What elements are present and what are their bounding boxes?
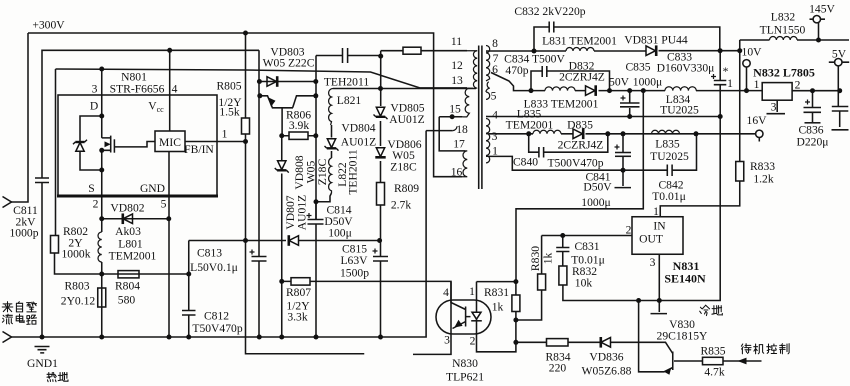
svg-text:1500p: 1500p — [340, 267, 369, 280]
svg-text:1000μ: 1000μ — [633, 76, 662, 89]
svg-text:FB/IN: FB/IN — [184, 143, 214, 156]
svg-text:1: 1 — [492, 145, 498, 158]
svg-text:L63V: L63V — [340, 254, 368, 267]
svg-text:R809: R809 — [394, 182, 419, 195]
svg-text:3: 3 — [771, 101, 777, 114]
svg-text:D220μ: D220μ — [797, 136, 829, 149]
svg-text:C831: C831 — [574, 240, 599, 253]
svg-text:1: 1 — [653, 205, 659, 218]
svg-text:L832: L832 — [771, 11, 796, 24]
svg-text:R807: R807 — [286, 286, 311, 299]
svg-text:VD804: VD804 — [341, 122, 375, 135]
svg-text:2: 2 — [795, 79, 801, 92]
svg-text:1.2k: 1.2k — [753, 173, 773, 186]
svg-text:TEM2001: TEM2001 — [109, 250, 157, 263]
svg-text:100μ: 100μ — [328, 227, 352, 240]
svg-text:T50V470p: T50V470p — [192, 322, 242, 335]
svg-text:N832 L7805: N832 L7805 — [753, 66, 815, 80]
svg-text:R804: R804 — [115, 280, 140, 293]
svg-text:R805: R805 — [216, 80, 241, 93]
svg-text:13: 13 — [451, 74, 463, 87]
svg-text:TU2025: TU2025 — [650, 150, 689, 163]
svg-text:L831 TEM2001: L831 TEM2001 — [542, 35, 617, 48]
svg-text:3.3k: 3.3k — [287, 311, 307, 324]
svg-text:IN: IN — [653, 220, 666, 233]
svg-text:12: 12 — [451, 59, 463, 72]
svg-text:TEH2011: TEH2011 — [347, 149, 360, 194]
svg-text:N830: N830 — [452, 357, 478, 370]
svg-text:T500V470p: T500V470p — [547, 157, 603, 170]
svg-text:17: 17 — [453, 138, 465, 151]
svg-text:5: 5 — [491, 90, 497, 103]
svg-text:4.7k: 4.7k — [704, 366, 724, 379]
svg-text:SE140N: SE140N — [664, 272, 706, 286]
svg-text:L50V0.1μ: L50V0.1μ — [190, 261, 238, 274]
svg-text:1000k: 1000k — [62, 248, 91, 261]
svg-text:L835: L835 — [655, 138, 680, 151]
svg-text:5: 5 — [161, 198, 167, 211]
svg-text:1: 1 — [754, 78, 760, 91]
svg-text:+300V: +300V — [32, 19, 65, 32]
svg-text:TLP621: TLP621 — [446, 371, 484, 384]
svg-text:TU2025: TU2025 — [660, 104, 699, 117]
svg-text:1.5k: 1.5k — [219, 106, 239, 119]
svg-text:C840: C840 — [513, 156, 538, 169]
svg-text:STR-F6656: STR-F6656 — [110, 83, 165, 96]
svg-text:3: 3 — [492, 130, 498, 143]
svg-text:VD831 PU44: VD831 PU44 — [624, 34, 688, 47]
svg-text:220: 220 — [549, 362, 567, 375]
svg-text:TEM2001: TEM2001 — [506, 119, 554, 132]
svg-text:18: 18 — [456, 123, 468, 136]
svg-text:2.7k: 2.7k — [391, 199, 411, 212]
svg-text:5V: 5V — [832, 48, 847, 61]
svg-text:T0.01μ: T0.01μ — [652, 190, 686, 203]
svg-text:16V: 16V — [747, 114, 768, 127]
svg-text:Z18C: Z18C — [390, 161, 417, 174]
svg-text:C813: C813 — [197, 247, 222, 260]
svg-text:11: 11 — [451, 35, 462, 48]
svg-text:1k: 1k — [492, 301, 504, 314]
svg-text:2CZRJ4Z: 2CZRJ4Z — [559, 71, 605, 84]
svg-text:1k: 1k — [542, 253, 555, 265]
svg-text:1: 1 — [727, 77, 733, 90]
svg-text:L821: L821 — [337, 94, 362, 107]
svg-text:3.9k: 3.9k — [289, 119, 309, 132]
svg-text:R830: R830 — [529, 246, 542, 271]
svg-text:GND: GND — [140, 182, 165, 195]
svg-text:AU01Z: AU01Z — [341, 136, 376, 149]
svg-text:4: 4 — [492, 109, 498, 122]
svg-text:2Y0.12: 2Y0.12 — [61, 295, 96, 308]
svg-text:D: D — [90, 100, 98, 113]
svg-text:C812: C812 — [204, 310, 229, 323]
svg-text:1: 1 — [469, 285, 475, 298]
svg-text:AU01Z: AU01Z — [389, 113, 424, 126]
svg-text:R803: R803 — [64, 280, 89, 293]
svg-text:2: 2 — [93, 198, 99, 211]
svg-text:VD836: VD836 — [589, 351, 623, 364]
svg-text:4: 4 — [172, 83, 178, 96]
svg-text:16: 16 — [451, 166, 463, 179]
svg-text:145V: 145V — [809, 3, 835, 16]
svg-text:580: 580 — [118, 294, 136, 307]
svg-text:W05Z6.88: W05Z6.88 — [582, 365, 632, 378]
svg-text:S: S — [88, 182, 94, 195]
svg-text:D50V: D50V — [583, 181, 612, 194]
svg-text:C835: C835 — [625, 61, 650, 74]
svg-text:GND1: GND1 — [27, 357, 58, 370]
svg-text:10V: 10V — [742, 46, 763, 59]
svg-text:1: 1 — [222, 128, 228, 141]
svg-text:TLN1550: TLN1550 — [760, 24, 806, 37]
svg-text:D160V330μ: D160V330μ — [657, 62, 715, 75]
svg-text:OUT: OUT — [639, 233, 663, 246]
svg-text:2CZRJ4Z: 2CZRJ4Z — [558, 139, 604, 152]
svg-text:TEH2011: TEH2011 — [324, 76, 369, 89]
svg-text:Ak03: Ak03 — [115, 225, 141, 238]
svg-text:MIC: MIC — [159, 136, 181, 149]
svg-text:D835: D835 — [567, 119, 593, 132]
svg-text:4: 4 — [443, 286, 449, 299]
svg-text:W05 Z22C: W05 Z22C — [263, 57, 315, 70]
svg-text:VD802: VD802 — [110, 202, 144, 215]
svg-text:Vcc: Vcc — [148, 100, 164, 115]
svg-text:15: 15 — [449, 103, 461, 116]
svg-text:3: 3 — [92, 83, 98, 96]
svg-text:1000p: 1000p — [10, 227, 39, 240]
svg-text:3: 3 — [444, 334, 450, 347]
svg-text:AU01Z: AU01Z — [296, 195, 309, 230]
svg-text:470p: 470p — [505, 64, 528, 77]
svg-text:R831: R831 — [484, 286, 509, 299]
svg-text:R835: R835 — [700, 345, 725, 358]
svg-text:8: 8 — [492, 37, 498, 50]
svg-text:50V: 50V — [609, 76, 630, 89]
svg-text:6: 6 — [492, 63, 498, 76]
svg-text:R833: R833 — [750, 160, 775, 173]
svg-text:3: 3 — [650, 256, 656, 269]
svg-text:10k: 10k — [575, 277, 593, 290]
svg-text:Z18C: Z18C — [316, 159, 329, 186]
svg-text:2: 2 — [470, 335, 476, 348]
svg-text:1000μ: 1000μ — [581, 196, 610, 209]
svg-text:29C1815Y: 29C1815Y — [657, 330, 709, 343]
svg-text:2: 2 — [626, 224, 632, 237]
svg-text:C832 2kV220p: C832 2kV220p — [514, 5, 585, 18]
